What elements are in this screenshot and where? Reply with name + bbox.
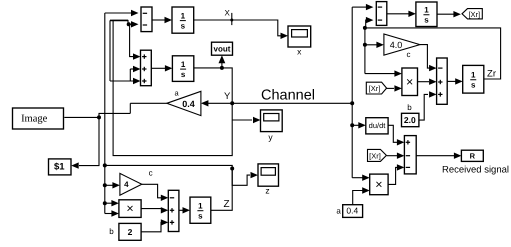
svg-text:du/dt: du/dt [369,121,387,130]
gain a 0.4 triangle [167,89,201,116]
sink block S1 [49,159,72,175]
product block X1 [119,200,141,218]
wire gain a output [130,102,167,104]
svg-text:z: z [265,186,269,196]
svg-text:1: 1 [181,11,186,20]
svg-text:b: b [407,103,412,112]
wire vertical v2b [109,20,111,81]
integrator 1/s (Y) [172,56,193,82]
wire from Xr to product [387,85,402,91]
svg-text:1: 1 [471,70,476,79]
svg-text:1: 1 [198,201,203,210]
svg-text:4: 4 [124,180,129,189]
sum block S_z (-,+,+) [168,190,179,231]
node Zr feedback branch [363,26,367,30]
wire product r output [418,79,437,85]
svg-text:vout: vout [214,45,231,54]
integrator 1/s (X) [172,7,194,33]
svg-text:[Xr]: [Xr] [468,10,480,19]
label z [265,186,269,196]
label b [109,227,114,236]
goto tag Xr [462,9,482,19]
svg-text:R: R [470,152,476,161]
svg-text:[Xr]: [Xr] [369,84,381,93]
label Received signal [442,165,509,176]
wire Z feedback vertical [104,13,106,214]
wire from Xr2 to sum [387,153,405,159]
wire Y feedback loop [113,20,232,155]
wire to gain c [105,182,120,188]
node X label and tick [225,9,234,26]
wire vertical x130 upper [129,69,131,81]
product block 2 [370,174,388,195]
svg-text:y: y [268,132,273,142]
sum block R_z (-,+,+) [437,58,448,104]
node du/dt tap [350,123,354,127]
sum block R_out (+,-,-) [404,136,416,174]
node Y junction [230,101,234,105]
integrator 1/s (Z) [190,197,211,223]
wire channel [232,102,352,104]
label Zr [487,69,496,80]
svg-text:s: s [198,212,203,221]
svg-text:×: × [406,75,413,89]
label x [297,46,302,56]
wire 0.4 to product2 [353,187,370,204]
svg-text:×: × [126,202,133,216]
wire gain c output [142,184,169,201]
node scope z tap [230,167,234,171]
wire to S1 [71,117,99,168]
scope z [258,164,279,186]
svg-text:c: c [407,50,411,59]
integrator 1/s (Zr) [463,65,484,93]
wire product port1 [105,200,119,206]
svg-text:s: s [424,16,429,25]
label b r [407,103,412,112]
svg-text:b: b [109,227,114,236]
sum block R_x (-,-) [376,2,387,26]
scope y [261,110,283,132]
wire channel to product2 [352,175,370,181]
svg-text:a: a [336,207,341,216]
node sum x port2 branch [127,22,131,26]
from tag Xr 1 [366,82,386,94]
wire gain 4.0 output [420,45,437,72]
wire product port2 [105,210,119,216]
wire channel vertical [351,7,353,178]
svg-text:Z: Z [223,199,229,210]
svg-text:0.4: 0.4 [182,99,195,109]
svg-text:$1: $1 [54,161,65,172]
svg-text:2: 2 [128,227,133,237]
wire sum->integrator Z [179,207,190,213]
wire to sum y port1 [129,24,141,60]
wire receiver sum port1 [352,4,373,10]
derivative du/dt [366,118,388,134]
gain c 4.0 triangle [384,34,420,59]
wire Y to gain a [201,100,232,106]
svg-text:×: × [375,177,382,191]
goto tag vout [212,42,233,55]
wire rsum2 out [447,78,463,84]
integrator 1/s (Xr) [416,2,437,27]
svg-text:[Xr]: [Xr] [369,151,381,160]
svg-text:x: x [297,46,302,56]
constant b 2.0 [402,113,419,126]
wire product output [141,207,168,213]
sink block R [461,150,483,161]
svg-text:4.0: 4.0 [390,40,403,50]
product block Xr*Zr [402,68,418,96]
svg-text:c: c [149,169,153,178]
svg-text:a: a [175,89,180,98]
wire scope z [232,169,258,186]
node gain c input [103,183,107,187]
wire sum x port1 [105,10,139,16]
wire scope y tap [232,117,260,123]
svg-text:Y: Y [224,91,231,102]
wire Image output [64,115,101,119]
label a r [336,207,341,216]
node Z feedback [103,163,107,167]
label Y [224,91,231,102]
wire to image node [99,113,130,117]
wire to gain 4.0 [365,42,384,48]
sum block S_y (+,+,+) [141,50,152,85]
wire constant 2 output [141,219,168,232]
constant a 0.4 [343,205,363,218]
wire X to scope x [194,20,288,39]
wire to R [416,153,461,159]
label Channel [261,88,315,104]
from tag Xr 2 [368,149,387,161]
svg-text:X: X [225,9,231,18]
svg-text:Zr: Zr [487,69,496,80]
wire sum->integrator X [152,17,172,23]
svg-text:Channel: Channel [261,88,315,104]
wire to goto Xr [437,11,461,17]
wire Y output [194,68,232,103]
wire feedback down [364,28,366,74]
wire sum y port2 [130,66,140,72]
label y [268,132,273,142]
svg-text:Received signal: Received signal [442,165,509,176]
wire du/dt output [388,125,404,145]
wire 2.0 to sum [419,91,437,120]
svg-text:1: 1 [181,60,186,69]
svg-text:1: 1 [424,5,429,14]
svg-text:s: s [471,81,476,90]
wire Zr feedback [365,28,501,79]
constant b 2 [119,223,141,240]
svg-text:s: s [181,21,186,30]
wire sum y port3 [110,78,141,84]
wire rsum port2 [366,17,374,28]
node gain c input r [363,43,367,47]
sum block S_x (-,-) [141,7,152,32]
wire product2 output [388,164,404,184]
wire Y top segment [110,19,128,21]
scope x [288,26,311,47]
wire sum->integrator Y [151,65,172,71]
wire rsum->rintegrator [387,11,416,17]
wire vout tap [219,55,226,70]
svg-text:0.4: 0.4 [346,206,358,216]
wire product r port1 [365,70,402,76]
gain c 4 triangle [120,169,153,196]
svg-text:Image: Image [21,114,48,125]
node channel top [350,101,354,105]
svg-text:s: s [181,70,186,79]
label Z [223,199,229,210]
node product port1 [103,201,107,205]
wire to du/dt [352,122,366,128]
wire vertical x130 lower [129,103,131,113]
wire Z output loop [105,165,232,210]
svg-text:2.0: 2.0 [404,115,416,125]
source block Image [13,108,64,129]
